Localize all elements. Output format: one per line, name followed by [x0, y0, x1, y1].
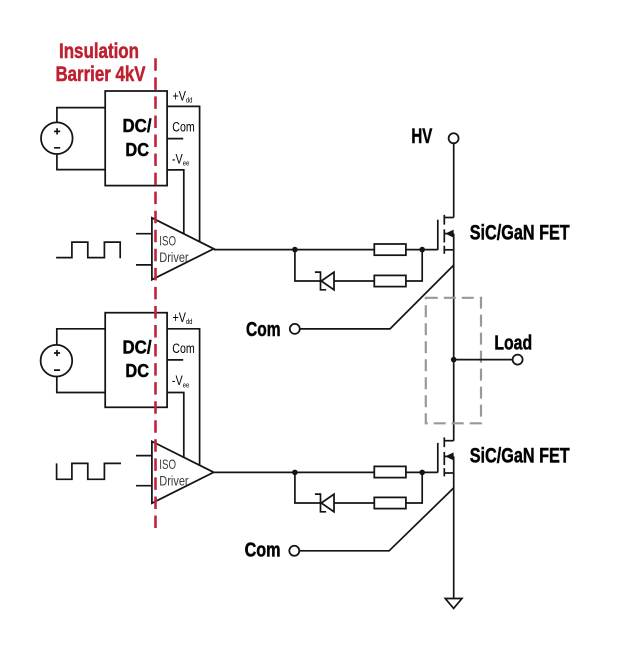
wire branch down to zener D1: [295, 250, 321, 281]
svg-text:Insulation: Insulation: [59, 40, 139, 63]
HV terminal: [411, 124, 458, 148]
PWM waveform 1: [56, 242, 120, 258]
transistor Q2 body arrow: [444, 452, 453, 460]
zener diode D1: [315, 272, 334, 290]
wire R4 up to node B2: [406, 472, 422, 503]
wire R1 to gate Q1: [406, 249, 438, 251]
ISO driver U2: [152, 218, 214, 280]
transistor Q2 channel segments: [443, 437, 445, 476]
node junction B1: [419, 247, 425, 253]
wire V1 minus to DC/DC 1: [57, 154, 105, 170]
node junction A1: [292, 247, 298, 253]
svg-text:Barrier 4kV: Barrier 4kV: [56, 63, 146, 86]
pin Com U1 stub: [167, 138, 183, 140]
svg-text:DC/: DC/: [123, 337, 152, 357]
insulation barrier label: [56, 40, 146, 86]
svg-text:ISO: ISO: [159, 234, 176, 249]
wire D1 to R2: [334, 280, 376, 282]
wire D2 to R4: [334, 502, 376, 504]
DC/DC converter U1: [105, 91, 167, 186]
svg-text:Com: Com: [246, 318, 281, 341]
svg-text:Load: Load: [494, 332, 532, 355]
transistor Q2 drain connection: [444, 440, 453, 442]
svg-text:Driver: Driver: [159, 250, 189, 265]
zener diode D2: [315, 494, 334, 512]
resistor R3: [374, 466, 406, 477]
transistor Q2 gate bar: [437, 443, 439, 473]
node junction A2: [292, 470, 298, 476]
transistor Q1 channel segments: [443, 215, 445, 254]
transistor Q1 source connection: [444, 249, 453, 251]
Com terminal 1: [246, 318, 300, 341]
gate wire U2 output to R1: [214, 249, 374, 251]
svg-text:Com: Com: [245, 538, 281, 561]
Load terminal: [494, 332, 532, 365]
wire V2 minus to DC/DC 2: [57, 376, 105, 392]
svg-text:Driver: Driver: [159, 473, 189, 488]
node junction B2: [419, 470, 425, 476]
svg-text:SiC/GaN FET: SiC/GaN FET: [470, 444, 570, 468]
voltage source V1: [41, 122, 73, 154]
ground: [445, 599, 462, 609]
wire HV to Q1 drain: [453, 143, 455, 217]
wire Com 2 to Q2 source: [299, 488, 453, 551]
PWM waveform 2: [57, 463, 121, 479]
svg-text:DC/: DC/: [123, 116, 152, 136]
phase node wire Q1 source to Q2 drain: [453, 234, 455, 441]
wire V1 plus to DC/DC 1: [57, 108, 105, 123]
Com terminal 2: [245, 538, 300, 561]
svg-text:Com: Com: [172, 341, 195, 356]
DC/DC converter U3: [105, 313, 167, 408]
wire U1 -Vee to ISO driver U2: [167, 170, 184, 234]
svg-text:Com: Com: [172, 119, 195, 134]
resistor R4: [374, 497, 406, 508]
ISO driver U2 input stubs: [136, 234, 152, 265]
transistor Q1 body arrow: [444, 230, 453, 238]
svg-text:ISO: ISO: [159, 457, 176, 472]
wire U1 +Vdd to ISO driver U2: [167, 106, 200, 241]
svg-text:DC: DC: [125, 140, 149, 160]
gate wire U4 output to R3: [214, 471, 374, 473]
wire R3 to gate Q2: [406, 471, 438, 473]
resistor R1: [374, 244, 406, 255]
node junction load tap: [451, 357, 457, 363]
svg-text:DC: DC: [125, 361, 149, 381]
transistor Q1 drain connection: [444, 217, 453, 219]
insulation barrier dashed line: [154, 58, 157, 528]
wire Q2 source to ground: [453, 456, 455, 598]
pin Com U3 stub: [167, 359, 183, 361]
transistor Q1 gate bar: [437, 220, 439, 250]
wire U3 -Vee to ISO driver U4: [167, 393, 184, 458]
wire V2 plus to DC/DC 2: [57, 329, 105, 345]
transistor Q2 source connection: [444, 472, 453, 474]
wire branch down to zener D2: [295, 472, 321, 503]
voltage source V2: [41, 345, 73, 377]
wire Com 1 to Q1 source: [300, 265, 454, 329]
wire U3 +Vdd to ISO driver U4: [167, 329, 200, 465]
svg-text:SiC/GaN FET: SiC/GaN FET: [470, 220, 570, 244]
svg-text:HV: HV: [411, 124, 432, 148]
resistor R2: [374, 275, 406, 286]
dashed module outline: [426, 298, 481, 424]
wire to Load terminal: [454, 359, 513, 361]
wire R2 up to node B1: [406, 250, 422, 281]
ISO driver U4: [152, 441, 214, 503]
ISO driver U4 input stubs: [136, 456, 152, 486]
